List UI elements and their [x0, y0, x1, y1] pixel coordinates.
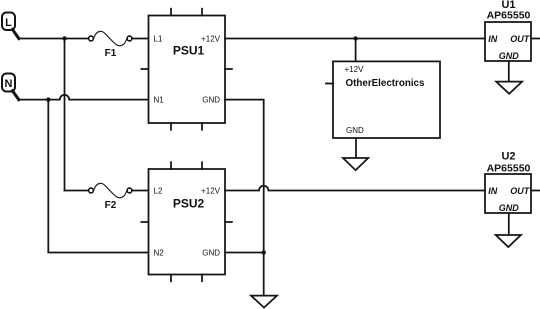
svg-text:F1: F1: [105, 48, 117, 59]
svg-text:GND: GND: [499, 51, 520, 61]
svg-text:IN: IN: [488, 34, 498, 44]
svg-text:N: N: [5, 78, 13, 90]
svg-text:+12V: +12V: [345, 65, 365, 74]
svg-text:F2: F2: [105, 200, 117, 211]
svg-text:GND: GND: [346, 126, 364, 135]
svg-text:OUT: OUT: [510, 186, 531, 196]
svg-text:PSU2: PSU2: [173, 197, 205, 211]
svg-text:N2: N2: [154, 248, 165, 257]
svg-text:AP65550: AP65550: [487, 162, 531, 174]
svg-text:PSU1: PSU1: [173, 44, 205, 58]
svg-text:GND: GND: [499, 203, 520, 213]
svg-text:OUT: OUT: [510, 34, 531, 44]
svg-text:OtherElectronics: OtherElectronics: [346, 78, 425, 89]
svg-text:AP65550: AP65550: [487, 10, 531, 22]
svg-text:+12V: +12V: [201, 186, 221, 195]
svg-text:GND: GND: [202, 95, 220, 104]
svg-text:U2: U2: [501, 151, 515, 163]
svg-text:L: L: [5, 17, 12, 29]
svg-text:N1: N1: [154, 95, 165, 104]
svg-text:IN: IN: [488, 186, 498, 196]
svg-text:L1: L1: [154, 34, 163, 43]
svg-text:GND: GND: [202, 248, 220, 257]
svg-text:+12V: +12V: [201, 34, 221, 43]
svg-text:L2: L2: [154, 186, 163, 195]
